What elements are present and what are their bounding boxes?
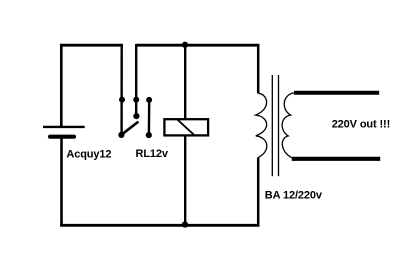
switch middle throw dot — [133, 113, 139, 119]
svg-text:RL12v: RL12v — [136, 148, 169, 160]
wire top rail down to transformer primary — [257, 44, 260, 93]
switch middle contact dot top — [133, 97, 139, 103]
switch right contact dot bottom — [146, 132, 152, 138]
output terminal bar top — [294, 91, 379, 95]
output terminal bar bottom — [292, 157, 380, 161]
wire drop to switch pivot — [120, 44, 122, 135]
transformer T1 core line left — [271, 75, 273, 176]
svg-text:220V out !!!: 220V out !!! — [332, 118, 390, 130]
relay coil K1 body — [164, 119, 208, 135]
node junction dot top rail — [182, 42, 188, 48]
node junction dot bottom rail — [182, 221, 188, 227]
wire battery+ up to top rail — [60, 44, 63, 126]
wire relay coil to bottom rail — [184, 135, 186, 226]
wire top rail left segment — [60, 44, 123, 47]
wire bottom rail — [60, 224, 259, 227]
transformer T1 primary winding — [256, 93, 267, 157]
switch right contact wire — [148, 100, 151, 135]
relay coil diagonal mark — [178, 120, 195, 135]
transformer T1 secondary winding — [282, 93, 294, 158]
switch RL12v moving arm — [121, 122, 138, 135]
wire transformer primary to bottom rail — [257, 157, 260, 226]
switch right contact dot top — [146, 97, 152, 103]
battery B1 (Acquy12) positive plate — [43, 126, 85, 128]
switch RL12v pivot dot — [118, 132, 124, 138]
battery B1 negative plate — [50, 135, 74, 139]
wire battery- down to bottom rail — [60, 138, 63, 227]
switch RL12v top-left contact dot — [119, 97, 125, 103]
wire junction down to relay coil — [184, 45, 186, 120]
switch middle throw wire — [135, 44, 137, 116]
svg-text:Acquy12: Acquy12 — [66, 148, 111, 160]
svg-text:BA 12/220v: BA 12/220v — [265, 189, 323, 201]
wire top rail right segment — [136, 44, 259, 47]
transformer T1 core line right — [278, 75, 280, 176]
